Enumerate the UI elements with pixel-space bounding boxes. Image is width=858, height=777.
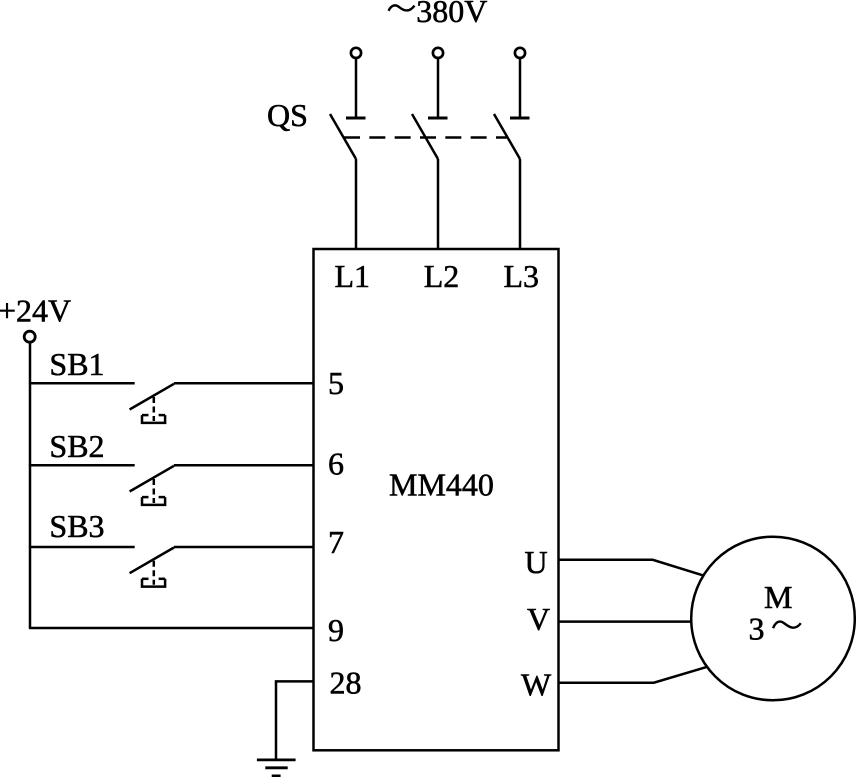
svg-text:L3: L3 <box>504 258 540 294</box>
QS mechanical linkage dashed line <box>344 136 508 139</box>
pushbutton SB3 actuator dashed link <box>153 561 156 585</box>
svg-text:380V: 380V <box>416 0 487 29</box>
svg-text:28: 28 <box>330 665 362 701</box>
wire QS pole3 to L3 <box>519 159 522 250</box>
supply terminal 2 <box>433 48 443 58</box>
pushbutton SB2 blade <box>130 466 174 492</box>
svg-text:+24V: +24V <box>0 293 71 329</box>
disconnect switch QS pole 2 blade <box>412 114 438 159</box>
wire terminal3 to QS pole3 <box>519 58 522 117</box>
+24V terminal circle <box>24 331 35 342</box>
svg-text:QS: QS <box>267 97 308 133</box>
svg-text:3: 3 <box>749 611 765 647</box>
wire pin V to motor <box>559 620 692 623</box>
wire QS pole1 to L1 <box>355 159 358 250</box>
motor label tilde <box>773 622 801 629</box>
inverter MM440 box <box>314 249 559 750</box>
svg-text:MM440: MM440 <box>389 467 494 503</box>
pushbutton SB3 actuator cup <box>142 579 165 587</box>
disconnect switch QS pole 1 contact bar <box>346 117 366 120</box>
disconnect switch QS pole 3 contact bar <box>510 117 530 120</box>
wire QS pole2 to L2 <box>437 159 440 250</box>
pushbutton SB2 actuator cup <box>142 497 165 505</box>
wire terminal2 to QS pole2 <box>437 58 440 117</box>
svg-text:M: M <box>764 579 792 615</box>
supply terminal 3 <box>515 48 525 58</box>
wire SB2 to pin 6 <box>174 464 314 467</box>
wire pin U to motor <box>559 560 704 576</box>
svg-text:W: W <box>521 667 552 703</box>
disconnect switch QS pole 1 blade <box>330 114 356 159</box>
svg-text:9: 9 <box>328 612 344 648</box>
pushbutton SB1 actuator cup <box>142 415 165 423</box>
svg-text:SB1: SB1 <box>49 346 104 382</box>
wire bus to pin 9 <box>29 627 314 630</box>
wire SB1 to pin 5 <box>174 382 314 385</box>
svg-text:U: U <box>525 544 548 580</box>
supply terminal 1 <box>351 48 361 58</box>
svg-text:6: 6 <box>328 446 344 482</box>
wire pin W to motor <box>559 667 707 683</box>
svg-text:V: V <box>527 601 550 637</box>
wire bus to SB3 <box>29 546 135 549</box>
ground <box>257 760 296 776</box>
disconnect switch QS pole 3 blade <box>494 114 520 159</box>
label ~380V <box>389 0 488 29</box>
wire terminal1 to QS pole1 <box>355 58 358 117</box>
pushbutton SB3 blade <box>130 548 174 574</box>
svg-text:SB3: SB3 <box>49 508 104 544</box>
wire bus to SB1 <box>29 382 135 385</box>
wire bus to SB2 <box>29 464 135 467</box>
svg-text:L2: L2 <box>424 258 460 294</box>
svg-text:L1: L1 <box>335 258 371 294</box>
motor M circle <box>691 537 855 701</box>
svg-text:5: 5 <box>328 365 344 401</box>
wire pin 28 to ground <box>276 681 314 760</box>
left bus wire <box>29 343 32 628</box>
pushbutton SB2 actuator dashed link <box>153 479 156 503</box>
svg-text:7: 7 <box>328 524 344 560</box>
wire SB3 to pin 7 <box>174 546 314 549</box>
pushbutton SB1 blade <box>130 384 174 410</box>
svg-text:SB2: SB2 <box>49 428 104 464</box>
disconnect switch QS pole 2 contact bar <box>428 117 448 120</box>
pushbutton SB1 actuator dashed link <box>153 397 156 421</box>
